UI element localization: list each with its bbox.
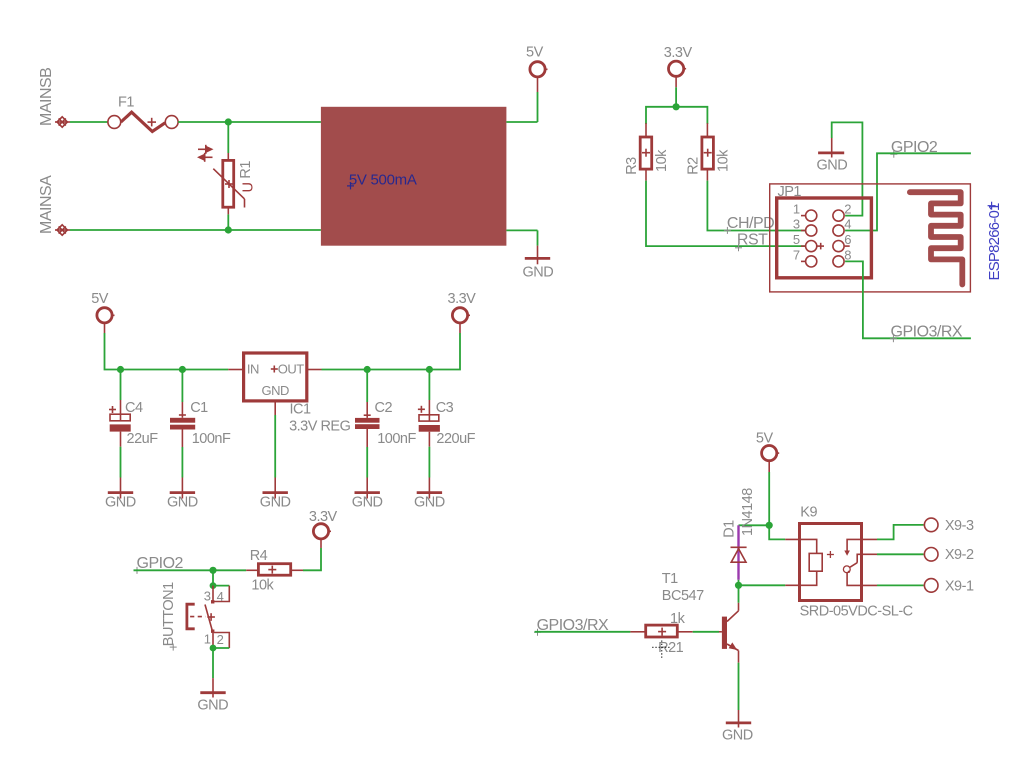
wire emitter [738, 663, 740, 710]
svg-text:GND: GND [197, 698, 228, 714]
capacitor C1 [170, 370, 195, 448]
svg-text:U: U [241, 183, 257, 193]
svg-text:6: 6 [844, 232, 851, 247]
junction [426, 366, 433, 373]
relay K9 coil wiring [785, 539, 834, 585]
junction [766, 522, 773, 529]
junction [673, 103, 680, 110]
svg-text:3.3V: 3.3V [664, 45, 693, 61]
pin 4 [833, 225, 844, 236]
resistor R4 [246, 564, 303, 576]
svg-text:5V: 5V [526, 45, 544, 61]
relay contact NC [847, 573, 877, 586]
svg-text:GND: GND [352, 495, 383, 511]
wire GND net [832, 122, 863, 215]
resistor R21 [630, 625, 692, 637]
svg-text:R3: R3 [624, 157, 640, 175]
ground [170, 478, 195, 499]
svg-text:K9: K9 [800, 504, 817, 520]
pin stub IC1 GND [274, 401, 276, 415]
varistor arrows [197, 145, 214, 162]
svg-text:GND: GND [105, 495, 136, 511]
junction [179, 366, 186, 373]
svg-text:220uF: 220uF [436, 431, 475, 447]
svg-text:8: 8 [844, 248, 851, 263]
wire [227, 214, 229, 230]
svg-text:BUTTON1: BUTTON1 [161, 582, 177, 646]
svg-text:F1: F1 [118, 95, 134, 111]
switch BUTTON1 [187, 586, 229, 648]
wire [646, 107, 707, 124]
svg-text:2: 2 [217, 632, 224, 647]
pin 6 [833, 241, 850, 252]
svg-text:4: 4 [217, 589, 224, 604]
svg-text:3.3V REG: 3.3V REG [289, 419, 350, 435]
supply 3.3V [669, 61, 687, 87]
svg-text:C1: C1 [190, 400, 208, 416]
pin numbers [793, 202, 851, 263]
svg-text:GND: GND [722, 727, 753, 743]
wire GND out [506, 229, 537, 231]
wire [227, 122, 229, 153]
wire [366, 447, 368, 478]
capacitor C4 [109, 370, 131, 447]
net label GPIO3/RX [534, 617, 609, 636]
svg-text:C4: C4 [125, 400, 143, 416]
pin X9-3 [923, 518, 938, 532]
pin 7 [801, 256, 817, 267]
pin 1 [801, 210, 817, 221]
pin MAINSA [55, 225, 70, 235]
wire coil plus [769, 525, 785, 539]
net label GPIO2 [890, 139, 938, 158]
selection crosshair [652, 641, 671, 659]
wire [105, 333, 229, 370]
junction [117, 366, 124, 373]
wire [768, 472, 770, 525]
net stub (violet) through D1 [737, 525, 739, 580]
antenna ESP8266 [910, 192, 962, 284]
svg-text:22uF: 22uF [127, 431, 159, 447]
relay contact NO [844, 539, 877, 555]
wire GPIO2 net [845, 153, 971, 230]
transistor T1 [719, 603, 739, 663]
ground [525, 246, 550, 265]
svg-text:1N4148: 1N4148 [740, 488, 756, 536]
svg-text:X9-2: X9-2 [945, 547, 974, 563]
wire [274, 415, 276, 478]
junction [225, 226, 232, 233]
supply 3.3V [452, 308, 470, 333]
junction [209, 567, 216, 574]
supply 5V [97, 308, 115, 333]
svg-text:10k: 10k [251, 578, 274, 594]
svg-text:R4: R4 [250, 548, 268, 564]
svg-text:3.3V: 3.3V [309, 509, 338, 525]
wire [70, 229, 321, 231]
wire [675, 87, 677, 107]
wire GPIO2 [134, 569, 247, 571]
junction [225, 118, 232, 125]
wire coil minus [739, 584, 786, 586]
svg-text:10k: 10k [654, 149, 670, 172]
supply 5V [762, 446, 780, 473]
ground [818, 138, 844, 158]
junction [364, 366, 371, 373]
svg-text:5: 5 [793, 232, 800, 247]
wire 5V out [506, 121, 537, 123]
net label CH/PD [724, 215, 774, 234]
svg-text:X9-3: X9-3 [945, 518, 974, 534]
resistor R3 [640, 123, 652, 180]
wire [739, 524, 770, 526]
svg-text:1: 1 [204, 631, 211, 646]
junction [210, 645, 217, 652]
svg-text:ESP8266-01: ESP8266-01 [986, 203, 1003, 281]
pin stub IC1 OUT [307, 369, 322, 371]
wire [70, 121, 108, 123]
svg-text:OUT: OUT [278, 361, 305, 376]
svg-text:GND: GND [817, 157, 848, 173]
svg-text:GND: GND [262, 383, 290, 398]
svg-text:GND: GND [167, 495, 198, 511]
svg-text:BC547: BC547 [662, 588, 704, 604]
svg-text:C3: C3 [436, 400, 454, 416]
wire [693, 631, 719, 633]
fuse F1 [108, 112, 178, 131]
ground [355, 478, 380, 499]
junction [210, 582, 217, 589]
wire [178, 121, 321, 123]
svg-text:100nF: 100nF [377, 431, 416, 447]
wire [303, 548, 321, 570]
svg-text:MAINSA: MAINSA [38, 175, 55, 234]
wire CH/PD net [707, 181, 804, 231]
svg-text:CH/PD: CH/PD [727, 215, 774, 232]
module outline ESP8266 [770, 184, 971, 292]
power module PS1 5V 500mA [321, 107, 507, 246]
supply 3.3V [313, 524, 331, 548]
wire [738, 580, 740, 586]
svg-text:10k: 10k [715, 149, 731, 172]
svg-text:SRD-05VDC-SL-C: SRD-05VDC-SL-C [800, 603, 913, 619]
pin X9-1 [923, 579, 938, 593]
svg-text:5V: 5V [91, 291, 109, 307]
svg-text:2: 2 [844, 202, 851, 217]
diode D1 [731, 547, 747, 562]
regulator IC1 [244, 353, 307, 401]
wire collector [738, 585, 740, 602]
resistor R2 [702, 123, 714, 180]
pin 3 [801, 225, 817, 236]
value ESP8266-01 [986, 202, 1003, 281]
relay K9 body [800, 524, 862, 601]
svg-text:R1: R1 [238, 161, 254, 179]
svg-text:GND: GND [414, 495, 445, 511]
value 5V 500mA [347, 172, 417, 190]
svg-text:D1: D1 [721, 520, 737, 538]
svg-text:3.3V: 3.3V [448, 291, 477, 307]
ground [263, 478, 288, 499]
pin MAINSB [55, 117, 70, 127]
junction [735, 582, 742, 589]
svg-text:4: 4 [844, 217, 851, 232]
pin label +OUT [271, 361, 305, 376]
svg-text:T1: T1 [662, 571, 678, 587]
wire [212, 570, 214, 585]
wire [428, 447, 430, 478]
svg-text:5V: 5V [756, 431, 774, 447]
ground [417, 478, 442, 499]
relay contact common [843, 554, 877, 573]
svg-text:100nF: 100nF [192, 431, 231, 447]
ground [108, 478, 133, 499]
svg-text:MAINSB: MAINSB [38, 68, 55, 126]
net label GPIO2 [134, 555, 184, 574]
pin stub IC1 IN [228, 369, 243, 371]
capacitor C2 [355, 370, 380, 448]
wire RST net [646, 181, 805, 247]
pin 8 [833, 256, 844, 267]
svg-text:IN: IN [247, 361, 259, 376]
wire [212, 648, 214, 678]
ground [726, 710, 751, 728]
svg-text:7: 7 [793, 248, 800, 263]
wire [120, 447, 122, 478]
label BUTTON1 [161, 582, 177, 651]
svg-text:GND: GND [523, 265, 554, 281]
svg-text:3: 3 [793, 217, 800, 232]
wire pin8 GPIO3/RX net [845, 261, 971, 338]
ground [200, 678, 225, 697]
svg-text:C2: C2 [375, 400, 393, 416]
pin X9-2 [923, 548, 938, 562]
svg-text:GND: GND [260, 495, 291, 511]
pin 5 [801, 241, 824, 252]
header JP1 body [777, 198, 872, 278]
svg-text:R2: R2 [686, 157, 702, 175]
svg-text:X9-1: X9-1 [945, 578, 974, 594]
pin numbers 3 4 1 2 [204, 589, 224, 648]
svg-text:IC1: IC1 [290, 402, 312, 418]
svg-text:GPIO3/RX: GPIO3/RX [891, 323, 963, 340]
net label GPIO3/RX [890, 323, 963, 342]
wire [322, 333, 461, 370]
wire X9-3 [877, 525, 923, 540]
capacitor C3 [418, 370, 440, 447]
svg-text:3: 3 [204, 589, 211, 604]
varistor R1 [213, 153, 244, 214]
wire X9-2 [877, 553, 923, 555]
svg-text:5V 500mA: 5V 500mA [349, 172, 417, 189]
svg-text:1: 1 [793, 202, 800, 217]
wire [181, 447, 183, 478]
svg-text:RST: RST [737, 231, 768, 248]
wire X9-1 [877, 584, 923, 586]
pin 2 [833, 210, 844, 221]
wire [535, 631, 631, 633]
supply 5V [530, 62, 548, 92]
svg-text:1k: 1k [670, 611, 686, 627]
